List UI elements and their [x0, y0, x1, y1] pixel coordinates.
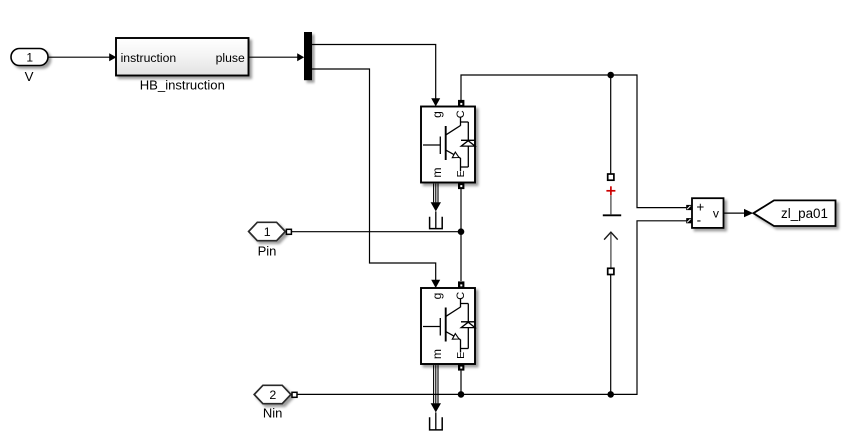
- svg-text:m: m: [430, 167, 444, 177]
- gate lead: [423, 326, 440, 328]
- diode cathode bar: [461, 139, 475, 141]
- DC source plate: [603, 214, 621, 216]
- diode bottom stub: [461, 166, 469, 168]
- svg-text:m: m: [430, 349, 444, 359]
- wire In1 to HB_instruction: [48, 53, 116, 61]
- node junction on Pin wire: [458, 228, 465, 235]
- gate lead: [423, 144, 440, 146]
- svg-text:Nin: Nin: [263, 405, 283, 420]
- svg-text:1: 1: [264, 225, 271, 239]
- DC source plus sign: [606, 186, 615, 195]
- wire C1 top rail to voltage measurement plus: [461, 75, 686, 208]
- emitter vertical: [460, 340, 462, 353]
- Pin connector square: [286, 229, 291, 234]
- IGBT/Diode block 1: [421, 100, 475, 189]
- svg-text:-: -: [697, 213, 702, 228]
- svg-text:1: 1: [26, 51, 33, 65]
- emitter diagonal: [446, 150, 460, 158]
- diode rail upper: [467, 122, 469, 140]
- svg-text:instruction: instruction: [121, 51, 177, 65]
- wire DC source to Nin rail: [610, 275, 612, 395]
- diode bottom stub: [461, 348, 469, 350]
- svg-text:Pin: Pin: [258, 244, 277, 259]
- diode top stub: [461, 121, 469, 123]
- DC source upper lead: [610, 196, 612, 215]
- m2 measurement wire (triple line): [431, 365, 441, 412]
- C port square: [458, 281, 464, 287]
- DC source top port square: [608, 174, 614, 180]
- connection port Nin (hexagon "2"): [254, 385, 297, 403]
- Nin connector square: [292, 392, 297, 397]
- diode cathode bar: [461, 321, 475, 323]
- DC source lower lead: [610, 234, 612, 269]
- node junction E2 on Nin rail: [458, 391, 465, 398]
- emitter vertical: [460, 158, 462, 171]
- emitter diagonal: [446, 332, 460, 340]
- svg-text:C: C: [455, 110, 467, 118]
- svg-text:V: V: [25, 69, 34, 84]
- diode triangle: [461, 141, 475, 146]
- svg-text:E: E: [455, 352, 467, 359]
- diode rail upper: [467, 304, 469, 322]
- wire voltage measurement to goto tag: [724, 209, 754, 217]
- E port square: [458, 183, 464, 189]
- goto tag zl_pa01: [753, 200, 835, 226]
- DC source arrow chevron: [604, 232, 618, 239]
- diode rail lower: [467, 146, 469, 167]
- svg-text:g: g: [430, 293, 444, 300]
- collector vertical: [460, 299, 462, 307]
- terminator 2: [430, 412, 443, 430]
- IGBT/Diode block 2: [421, 281, 475, 370]
- emitter arrowhead: [452, 334, 459, 340]
- node junction source bottom on Nin rail: [607, 391, 614, 398]
- wire E2 to Nin node: [460, 371, 462, 395]
- svg-text:2: 2: [269, 388, 276, 402]
- svg-text:zl_pa01: zl_pa01: [781, 206, 828, 221]
- E port square: [458, 364, 464, 370]
- svg-text:g: g: [430, 111, 444, 118]
- emitter arrowhead: [452, 152, 459, 158]
- body bar: [445, 308, 447, 342]
- body bar: [445, 126, 447, 160]
- wire top rail to DC source: [610, 75, 612, 174]
- collector diagonal: [446, 307, 460, 316]
- wire demux out1 to IGBT1 gate: [312, 45, 440, 107]
- VM minus port square: [686, 218, 691, 223]
- svg-text:pluse: pluse: [216, 51, 245, 65]
- gate plate: [439, 318, 441, 336]
- svg-text:v: v: [713, 207, 720, 221]
- wire Nin rail to voltage measurement minus: [297, 221, 686, 395]
- diode top stub: [461, 303, 469, 305]
- wire E1 to C2: [460, 189, 462, 281]
- gate plate: [439, 137, 441, 155]
- collector vertical: [460, 118, 462, 126]
- DC source bottom port square: [608, 268, 614, 274]
- demux bar: [304, 32, 312, 80]
- diode triangle: [461, 322, 475, 327]
- input port In1 (oval "1"): [11, 49, 48, 66]
- subsystem block HB_instruction: [116, 38, 249, 76]
- VM plus port square: [686, 205, 691, 210]
- svg-text:E: E: [455, 170, 467, 177]
- m1 measurement wire (triple line): [431, 184, 441, 212]
- svg-text:HB_instruction: HB_instruction: [140, 78, 225, 93]
- voltage measurement block U (+ - v): [686, 198, 723, 228]
- C port square: [458, 100, 464, 106]
- node junction source top on C1 rail: [607, 72, 614, 79]
- wire demux out2 to IGBT2 gate: [312, 69, 440, 288]
- svg-text:C: C: [455, 292, 467, 300]
- terminator 1: [430, 211, 443, 228]
- collector diagonal: [446, 126, 460, 135]
- connection port Pin (hexagon "1"): [249, 222, 292, 240]
- wire HB_instruction to demux: [249, 53, 305, 61]
- wire Pin to midpoint node: [292, 231, 461, 233]
- diode rail lower: [467, 328, 469, 349]
